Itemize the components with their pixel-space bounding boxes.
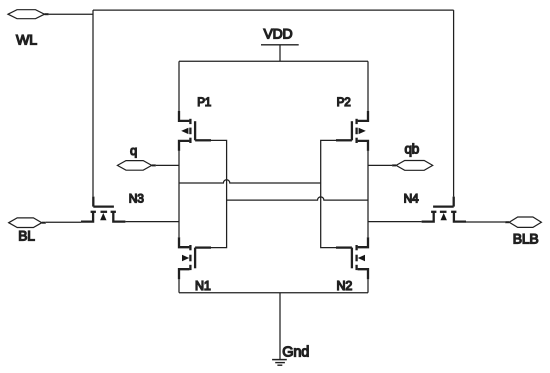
node q vertical — [178, 151, 180, 237]
wire qb node to port — [368, 164, 392, 166]
wire q port to node — [156, 164, 179, 166]
svg-text:WL: WL — [16, 32, 37, 48]
svg-text:VDD: VDD — [264, 25, 293, 41]
svg-text:P1: P1 — [197, 96, 211, 109]
transistor N4 — [422, 197, 466, 222]
svg-text:BL: BL — [18, 229, 35, 244]
svg-text:N4: N4 — [404, 192, 419, 206]
wire N2 source to ground rail — [367, 279, 369, 293]
svg-text:N3: N3 — [129, 192, 144, 206]
wire N4 to node qb — [368, 221, 422, 223]
transistor P1 — [179, 111, 211, 151]
wire cross couple left gates to qb with hop — [227, 197, 368, 200]
power VDD symbol — [261, 45, 299, 62]
node right gate vertical — [321, 140, 336, 247]
transistor N2 — [336, 237, 368, 279]
ground symbol — [272, 360, 287, 366]
wire ground rail — [179, 292, 368, 294]
svg-text:P2: P2 — [337, 96, 351, 109]
wire N3 to node q — [125, 221, 179, 223]
transistor P2 — [336, 111, 368, 151]
node qb vertical — [367, 151, 369, 237]
wire BLB port to N4 — [466, 221, 505, 223]
node left gate vertical — [211, 140, 227, 247]
wire N1 source to ground rail — [178, 279, 180, 293]
svg-text:BLB: BLB — [513, 231, 539, 247]
port q — [117, 161, 155, 171]
wire ground stem — [279, 293, 281, 360]
wire word line left vertical — [92, 10, 94, 197]
wire word line top — [93, 9, 454, 11]
wire VDD rail — [179, 60, 368, 62]
port WL — [8, 10, 49, 19]
port BLB — [505, 217, 541, 227]
wire P1 source — [178, 61, 180, 111]
wire P2 source — [367, 61, 369, 111]
svg-text:q: q — [130, 143, 137, 158]
transistor N1 — [179, 237, 211, 279]
svg-text:N2: N2 — [337, 279, 353, 293]
port qb — [392, 161, 433, 171]
svg-text:N1: N1 — [195, 279, 211, 293]
wire word line right vertical — [453, 10, 455, 197]
wire BL port to N3 — [46, 221, 81, 223]
wire WL port to word line — [49, 13, 93, 15]
transistor N3 — [81, 197, 125, 222]
wire cross couple q to right gates with hop — [179, 180, 321, 183]
svg-text:Gnd: Gnd — [282, 344, 309, 360]
port BL — [9, 218, 46, 228]
svg-text:qb: qb — [405, 142, 420, 157]
